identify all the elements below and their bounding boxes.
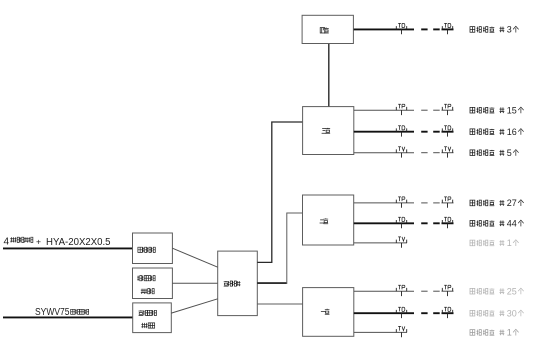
socket TD floor2 TD first [396,217,406,228]
label cable 4芯多模光纤 + HYA-20X2X0.5 [4,237,112,249]
socket TP floor2 TP first [396,197,406,208]
label floor4 TD 网络插座 共3个 [470,25,519,35]
svg-text:27: 27 [507,198,517,208]
wire floor2 TP outlet line [354,202,454,204]
wire MDF to floor3 riser [257,122,302,262]
wire floor4 to floor3 riser [328,44,330,107]
wire MDF to floor1 [257,303,302,305]
svg-text:4: 4 [4,237,10,248]
box floor3 三层 [303,107,354,155]
wire MDF to floor2 riser bold segment [257,282,287,284]
wire floor3 TP outlet line [354,109,454,111]
wire floor4 TD outlet line [354,28,454,30]
socket TP floor3 TP second [442,104,452,115]
wire floor3 TD outlet line [354,131,454,133]
svg-text:3: 3 [507,25,512,35]
box floor2 二层 [303,195,354,245]
wire floor1 TP outlet line [354,290,454,292]
socket TP floor1 TP second [442,285,452,296]
socket TD floor4 TD first [396,23,406,34]
wire floor3 TV outlet line [354,152,454,154]
wire U1 to MDF diagonal [172,248,217,267]
label floor3 TD 网络插座 共16个 [470,127,524,137]
label floor2 TV 电视插座 共1个 [470,238,519,248]
box U3 有线电视分配器 [133,303,172,333]
box U1 网络机柜 [133,233,173,264]
svg-text:HYA-20X2X0.5: HYA-20X2X0.5 [46,237,111,248]
socket TP floor1 TP first [396,285,406,296]
wire floor2 TD outlet line [354,222,454,224]
wire floor2 TV outlet line [354,242,407,244]
socket TD floor3 TD first [396,126,406,137]
label floor3 TP 电话插座 共15个 [470,105,524,115]
svg-text:44: 44 [507,219,517,229]
label floor1 TD 网络插座 共30个 [470,308,524,318]
wire CATV trunk cable [3,316,133,318]
socket TD floor1 TD first [396,307,406,318]
svg-text:25: 25 [507,286,517,296]
label floor2 TD 网络插座 共44个 [470,219,524,229]
wire fiber/phone trunk cable [3,247,133,249]
svg-text:30: 30 [507,308,517,318]
socket TD floor4 TD second [442,23,452,34]
wire MDF to floor2 riser [287,213,303,284]
socket TD floor1 TD second [442,307,452,318]
svg-text:+: + [36,237,41,247]
wire floor1 TD outlet line [354,312,454,314]
box MDF 总配线架 [218,251,258,316]
svg-text:1: 1 [507,238,512,248]
socket TD floor3 TD second [442,126,452,137]
socket TV floor3 TV first [396,147,406,158]
box U2 程控电话交换机 [133,268,173,299]
svg-text:15: 15 [507,105,517,115]
socket TV floor3 TV second [442,147,452,158]
label floor3 TV 电视插座 共5个 [470,148,519,158]
socket TP floor3 TP first [396,104,406,115]
label floor1 TV 电视插座 共1个 [470,328,519,338]
svg-text:1: 1 [507,328,512,338]
svg-text:5: 5 [507,148,512,158]
wire U2 to MDF [172,282,217,284]
svg-text:16: 16 [507,127,517,137]
socket TP floor2 TP second [442,197,452,208]
wire floor1 TV outlet line [354,331,407,333]
socket TV floor1 TV first [396,326,406,337]
label cable SYWV75同轴电缆 [35,307,89,318]
label floor2 TP 电话插座 共27个 [470,198,524,208]
label floor1 TP 电话插座 共25个 [470,286,524,296]
svg-text:SYWV75: SYWV75 [35,307,70,318]
wire U3 to MDF diagonal [171,299,217,313]
box floor1 一层 [303,288,354,337]
socket TV floor2 TV first [396,237,406,248]
box floor4 四层 [302,15,353,43]
socket TD floor2 TD second [442,217,452,228]
